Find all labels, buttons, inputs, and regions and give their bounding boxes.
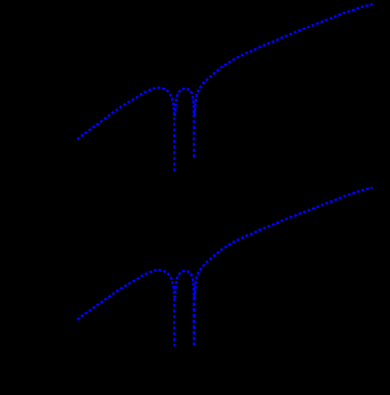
bottom curve: antiresonance dip 1: [173, 296, 175, 347]
bottom curve: left rising segment: [77, 270, 174, 320]
top curve: antiresonance dip 1: [173, 114, 175, 172]
top curve: rising tail: [195, 4, 373, 116]
top curve: antiresonance dip 2: [193, 114, 195, 158]
bottom curve: antiresonance dip 2: [193, 296, 196, 346]
top curve: bump between dips: [175, 89, 194, 116]
bottom curve: bump between dips: [175, 271, 194, 298]
top curve: left rising segment: [77, 88, 174, 140]
bottom curve: rising tail: [195, 188, 373, 299]
